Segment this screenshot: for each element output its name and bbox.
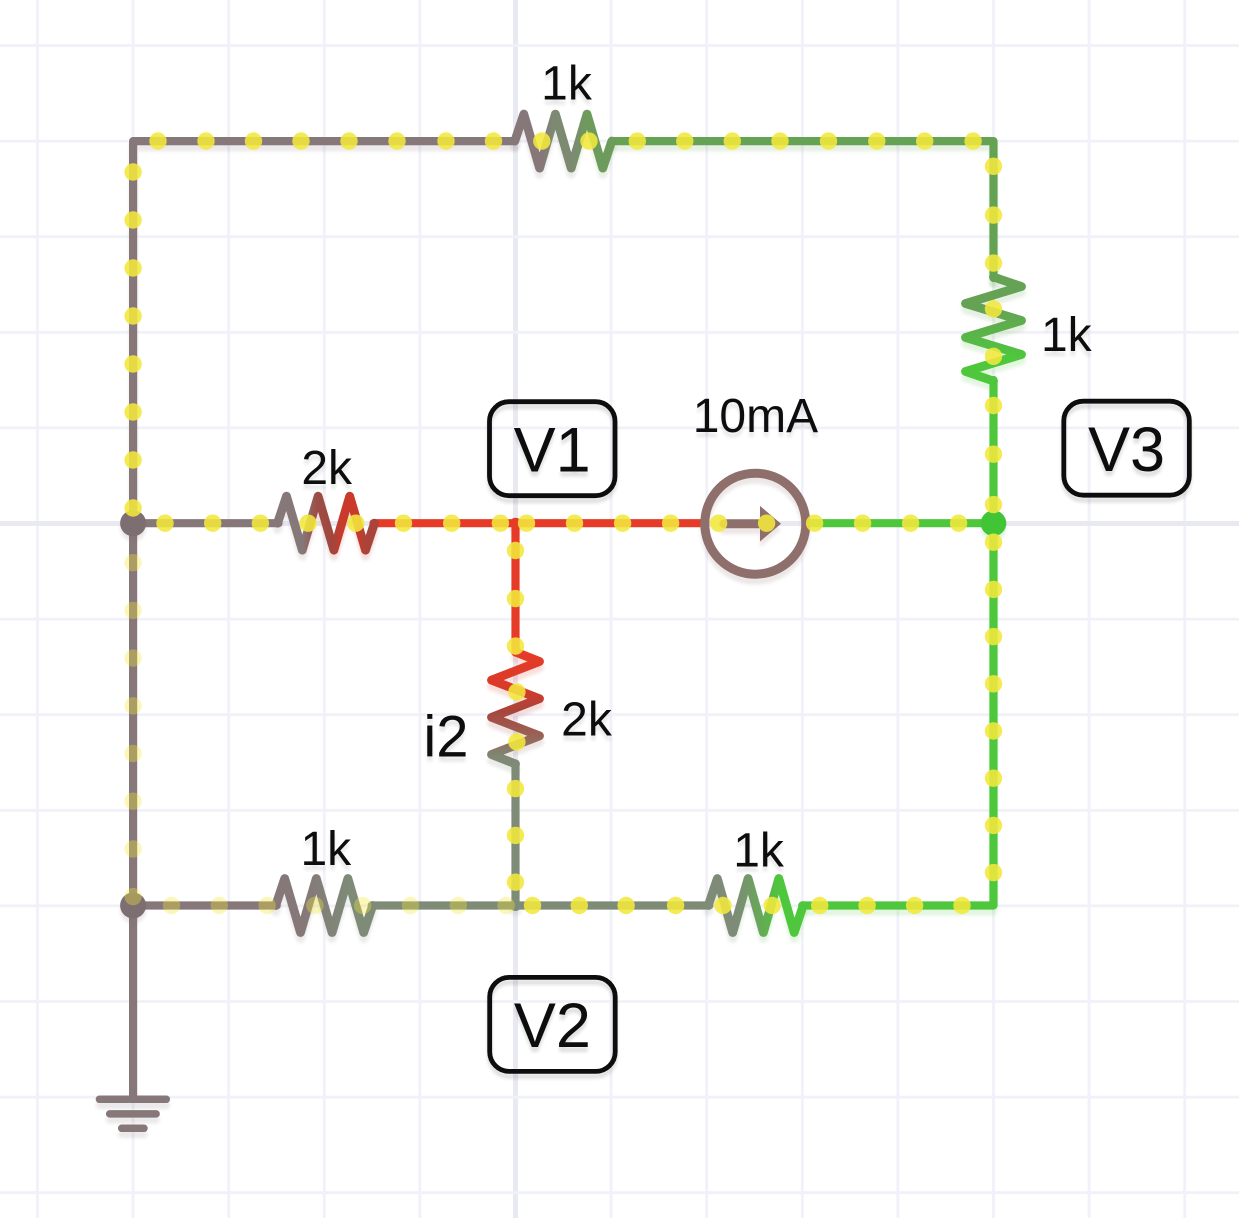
current dots: bottom right branch (node D to V3)	[524, 534, 1002, 915]
current dots: faded, left rail lower and bottom left branch	[124, 554, 514, 914]
wire: node C to resistor R5	[133, 906, 277, 912]
value label 1k (R5)	[300, 823, 352, 881]
resistor R2 1k (right vertical)	[966, 277, 1022, 387]
resistor R1 1k (top horizontal)	[515, 114, 612, 174]
wire: R4 down to node D (olive)	[511, 764, 519, 912]
node label V1	[490, 402, 616, 501]
wire: node A to resistor R3	[133, 523, 278, 529]
wire: node D to resistor R6 (olive)	[516, 906, 710, 912]
node A (left middle junction)	[120, 510, 146, 541]
resistor R3 2k (middle horizontal)	[278, 496, 375, 556]
current dots: top branch (left rail up, top wire, right rail to V3)	[124, 132, 1002, 516]
value label 2k (R4)	[561, 694, 613, 752]
node D (bottom middle junction)	[510, 900, 521, 916]
wire: R3 to node V1 (red)	[374, 523, 516, 529]
wire: current source I1 to node V3 (green)	[810, 523, 994, 529]
wire: node V1 down to resistor R4 (red)	[511, 523, 519, 658]
wire: top-right horizontal + right rail upper (R1 to resistor R2)	[612, 141, 994, 284]
value label 1k (R1)	[541, 58, 593, 116]
current dots: middle branch (node A to V3 through R3 and I1)	[156, 515, 967, 532]
current dots: V1 down through R4 to node D	[507, 542, 526, 891]
svg-text:1k: 1k	[541, 58, 593, 111]
node label V2	[490, 977, 616, 1076]
resistor R4 2k (middle vertical)	[492, 652, 540, 770]
svg-text:2k: 2k	[561, 694, 613, 747]
svg-text:1k: 1k	[300, 823, 352, 876]
value label 10mA (I1)	[693, 390, 818, 448]
svg-text:1k: 1k	[733, 824, 785, 877]
wire: node V1 to current source I1 (red)	[516, 523, 702, 529]
current label i2 (R4)	[423, 705, 468, 775]
node C (left bottom junction)	[120, 892, 146, 923]
svg-text:1k: 1k	[1041, 309, 1093, 362]
wire: R6 to bottom-right corner + right rail lower (green)	[802, 523, 993, 911]
svg-text:V3: V3	[1088, 415, 1165, 485]
wire: left rail lower (node A to node C)	[129, 523, 137, 911]
svg-text:V2: V2	[514, 991, 591, 1061]
resistor R5 1k (bottom left)	[276, 879, 373, 939]
value label 2k (R3)	[301, 442, 353, 500]
value label 1k (R6)	[733, 824, 785, 882]
current source I1 10mA (circle with arrow)	[705, 473, 806, 580]
wire: left rail up + top-left horizontal (node A to resistor R1)	[133, 141, 515, 529]
svg-text:2k: 2k	[301, 442, 353, 495]
ground symbol	[99, 1099, 166, 1134]
wire: node C down to ground	[129, 906, 137, 1102]
svg-text:10mA: 10mA	[693, 390, 818, 443]
value label 1k (R2)	[1041, 309, 1093, 367]
svg-text:i2: i2	[423, 705, 468, 770]
svg-text:V1: V1	[514, 416, 591, 486]
wire: R5 to node D (olive)	[372, 906, 516, 912]
node V1 (middle junction)	[510, 518, 521, 534]
wire: right rail, R2 down to node V3	[989, 380, 997, 529]
node V3 (right middle junction)	[981, 510, 1007, 541]
resistor R6 1k (bottom right)	[708, 879, 803, 939]
node label V3	[1064, 401, 1190, 500]
